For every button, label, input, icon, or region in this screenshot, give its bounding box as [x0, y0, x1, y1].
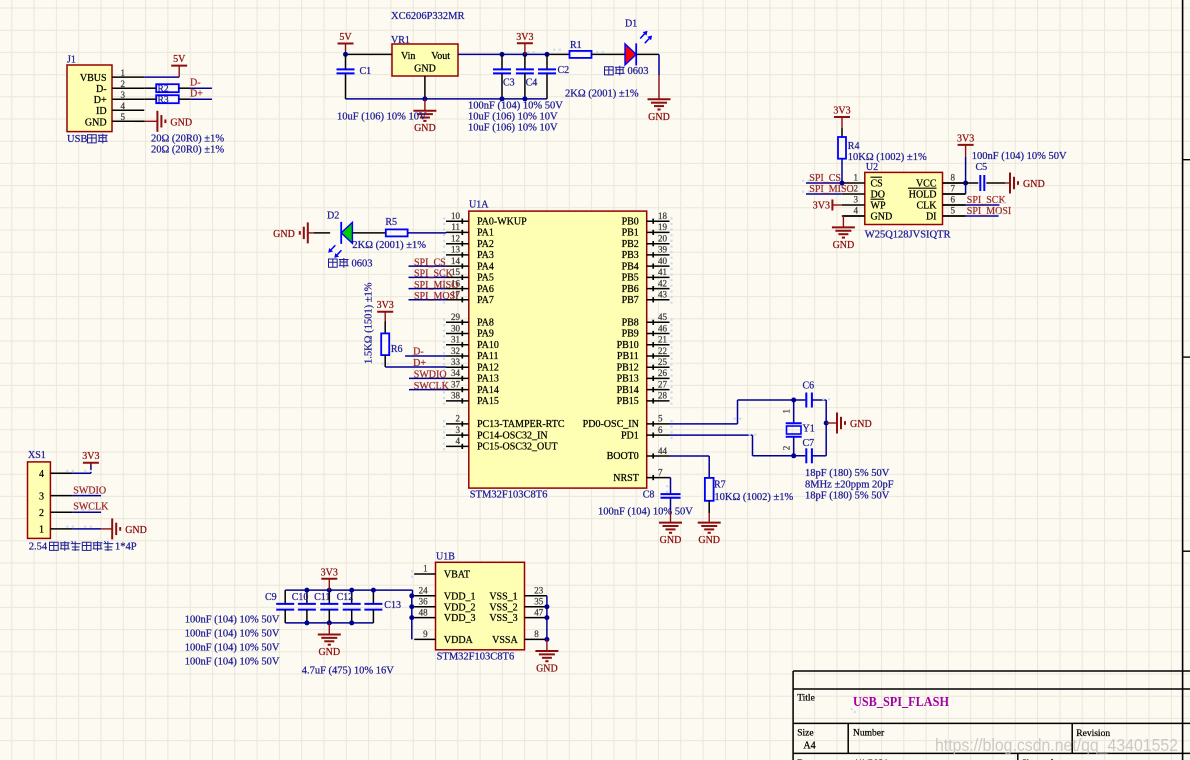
svg-text:8: 8	[534, 629, 539, 639]
svg-text:PA9: PA9	[477, 329, 494, 340]
svg-text:J1: J1	[67, 55, 76, 66]
svg-text:5V: 5V	[339, 32, 352, 43]
svg-text:VSS_2: VSS_2	[489, 602, 517, 613]
svg-text:44: 44	[658, 446, 668, 456]
svg-text:R7: R7	[714, 479, 726, 490]
svg-text:U2: U2	[866, 162, 878, 173]
svg-text:PA14: PA14	[477, 385, 499, 396]
svg-text:24: 24	[419, 586, 429, 596]
svg-text:PB13: PB13	[617, 374, 639, 385]
svg-text:30: 30	[451, 323, 461, 333]
svg-text:2: 2	[39, 508, 44, 519]
svg-text:18: 18	[658, 211, 668, 221]
svg-text:C6: C6	[803, 380, 815, 391]
svg-text:3V3: 3V3	[321, 567, 338, 578]
svg-text:SPI_SCK: SPI_SCK	[967, 195, 1007, 206]
svg-text:20: 20	[658, 234, 668, 244]
svg-text:PA5: PA5	[477, 273, 494, 284]
svg-text:WP: WP	[871, 200, 886, 211]
svg-text:STM32F103C8T6: STM32F103C8T6	[437, 651, 515, 662]
svg-text:4.7uF (475) 10% 16V: 4.7uF (475) 10% 16V	[302, 666, 395, 677]
svg-text:7: 7	[951, 184, 956, 194]
svg-text:1: 1	[782, 409, 792, 414]
svg-text:A4: A4	[803, 741, 815, 752]
svg-text:C11: C11	[314, 592, 330, 603]
svg-text:21: 21	[658, 335, 667, 345]
svg-text:D-: D-	[413, 347, 424, 358]
svg-text:8: 8	[951, 173, 956, 183]
svg-text:VDDA: VDDA	[444, 635, 474, 646]
svg-text:10uF (106) 10% 10V: 10uF (106) 10% 10V	[337, 112, 427, 123]
svg-text:100nF (104) 10% 50V: 100nF (104) 10% 50V	[468, 101, 563, 112]
svg-text:U1A: U1A	[469, 199, 489, 210]
svg-text:GND: GND	[850, 419, 872, 430]
svg-text:3V3: 3V3	[957, 133, 974, 144]
svg-text:SPI_SCK: SPI_SCK	[414, 269, 454, 280]
svg-text:R6: R6	[391, 344, 403, 355]
svg-text:11: 11	[451, 222, 460, 232]
svg-text:D1: D1	[625, 18, 637, 29]
svg-text:100nF (104) 10% 50V: 100nF (104) 10% 50V	[598, 507, 693, 518]
svg-text:C1: C1	[360, 66, 372, 77]
svg-text:1: 1	[854, 173, 859, 183]
svg-text:29: 29	[451, 312, 461, 322]
svg-text:USB: USB	[67, 134, 87, 145]
svg-text:20Ω (20R0) ±1%: 20Ω (20R0) ±1%	[151, 134, 224, 145]
svg-text:46: 46	[658, 323, 668, 333]
svg-text:VBAT: VBAT	[444, 570, 470, 581]
svg-text:PA4: PA4	[477, 261, 494, 272]
svg-text:D-: D-	[190, 78, 201, 89]
svg-text:SWCLK: SWCLK	[414, 381, 450, 392]
svg-text:1: 1	[121, 68, 126, 78]
svg-text:XS1: XS1	[28, 450, 46, 461]
svg-text:Vout: Vout	[431, 51, 450, 62]
svg-text:3V3: 3V3	[813, 201, 830, 212]
svg-text:42: 42	[658, 278, 667, 288]
svg-text:PA12: PA12	[477, 362, 499, 373]
svg-text:13: 13	[451, 245, 461, 255]
svg-text:2KΩ (2001) ±1%: 2KΩ (2001) ±1%	[565, 89, 639, 100]
svg-text:20Ω (20R0) ±1%: 20Ω (20R0) ±1%	[151, 145, 224, 156]
svg-text:0603: 0603	[352, 258, 373, 269]
svg-text:PA7: PA7	[477, 295, 494, 306]
svg-text:PB4: PB4	[622, 261, 639, 272]
svg-text:GND: GND	[318, 647, 340, 658]
svg-text:34: 34	[451, 368, 461, 378]
svg-text:PB7: PB7	[622, 295, 639, 306]
svg-text:33: 33	[451, 357, 461, 367]
svg-text:C3: C3	[503, 78, 515, 89]
svg-text:7: 7	[658, 467, 663, 477]
svg-text:PA2: PA2	[477, 239, 494, 250]
svg-text:PA6: PA6	[477, 284, 494, 295]
svg-text:Number: Number	[853, 729, 885, 739]
svg-text:CLK: CLK	[917, 200, 938, 211]
svg-text:U1B: U1B	[436, 551, 455, 562]
svg-text:C7: C7	[803, 438, 815, 449]
svg-text:D+: D+	[413, 358, 426, 369]
svg-text:VBUS: VBUS	[80, 73, 107, 84]
svg-text:GND: GND	[833, 240, 855, 251]
svg-text:14: 14	[451, 256, 461, 266]
svg-text:Size: Size	[797, 729, 813, 739]
svg-text:PA11: PA11	[477, 351, 499, 362]
svg-text:4: 4	[39, 469, 44, 480]
svg-text:25: 25	[658, 357, 668, 367]
svg-text:10: 10	[451, 211, 461, 221]
svg-text:18pF (180) 5% 50V: 18pF (180) 5% 50V	[805, 468, 890, 479]
svg-text:GND: GND	[871, 211, 893, 222]
svg-text:VSSA: VSSA	[492, 635, 518, 646]
svg-text:PA3: PA3	[477, 250, 494, 261]
svg-text:38: 38	[451, 391, 461, 401]
svg-text:5: 5	[121, 112, 126, 122]
svg-text:PB3: PB3	[622, 250, 639, 261]
svg-text:PA13: PA13	[477, 374, 499, 385]
svg-text:SPI_MOSI: SPI_MOSI	[414, 291, 458, 302]
svg-text:43: 43	[658, 290, 668, 300]
svg-text:PA1: PA1	[477, 228, 494, 239]
svg-text:2: 2	[782, 446, 792, 451]
svg-text:PB10: PB10	[617, 340, 639, 351]
svg-text:PB8: PB8	[622, 318, 639, 329]
svg-text:40: 40	[658, 256, 668, 266]
svg-text:3V3: 3V3	[377, 300, 394, 311]
svg-text:GND: GND	[536, 664, 558, 675]
svg-text:R5: R5	[385, 217, 397, 228]
svg-text:5: 5	[951, 206, 956, 216]
svg-text:3: 3	[456, 425, 461, 435]
svg-text:GND: GND	[414, 123, 436, 134]
svg-text:31: 31	[451, 335, 460, 345]
svg-text:10KΩ (1002) ±1%: 10KΩ (1002) ±1%	[714, 492, 793, 503]
svg-text:1.5KΩ (1501) ±1%: 1.5KΩ (1501) ±1%	[364, 282, 375, 364]
svg-text:PB0: PB0	[622, 216, 639, 227]
svg-text:PA0-WKUP: PA0-WKUP	[477, 216, 527, 227]
svg-text:R4: R4	[848, 141, 860, 152]
svg-text:41: 41	[658, 267, 667, 277]
svg-text:3: 3	[121, 90, 126, 100]
svg-text:PB14: PB14	[617, 385, 639, 396]
svg-text:C5: C5	[976, 162, 988, 173]
svg-text:100nF (104) 10% 50V: 100nF (104) 10% 50V	[185, 614, 280, 625]
svg-text:C2: C2	[558, 65, 570, 76]
svg-text:PC13-TAMPER-RTC: PC13-TAMPER-RTC	[477, 419, 565, 430]
svg-text:6: 6	[951, 195, 956, 205]
svg-text:6: 6	[658, 425, 663, 435]
svg-text:5: 5	[658, 414, 663, 424]
svg-text:D2: D2	[327, 211, 339, 222]
svg-text:47: 47	[534, 607, 544, 617]
svg-text:PB15: PB15	[617, 396, 639, 407]
svg-text:4: 4	[121, 101, 126, 111]
svg-text:PA10: PA10	[477, 340, 499, 351]
svg-text:2: 2	[854, 184, 859, 194]
svg-text:36: 36	[419, 596, 429, 606]
svg-text:CS: CS	[871, 178, 883, 189]
svg-text:SPI_CS: SPI_CS	[809, 173, 841, 184]
svg-text:3V3: 3V3	[833, 106, 850, 117]
svg-text:32: 32	[451, 346, 460, 356]
svg-text:SPI_MISO: SPI_MISO	[809, 184, 853, 195]
svg-text:ID: ID	[96, 106, 107, 117]
svg-text:C9: C9	[265, 592, 277, 603]
svg-text:3V3: 3V3	[516, 32, 533, 43]
svg-text:39: 39	[658, 245, 668, 255]
svg-text:PB6: PB6	[622, 284, 639, 295]
svg-text:HOLD: HOLD	[909, 189, 937, 200]
svg-text:PB2: PB2	[622, 239, 639, 250]
svg-text:SWCLK: SWCLK	[73, 501, 109, 512]
svg-text:SWDIO: SWDIO	[414, 370, 447, 381]
svg-text:19: 19	[658, 222, 668, 232]
svg-text:C10: C10	[292, 592, 309, 603]
svg-text:100nF (104) 10% 50V: 100nF (104) 10% 50V	[185, 656, 280, 667]
svg-text:GND: GND	[648, 112, 670, 123]
svg-text:2KΩ (2001) ±1%: 2KΩ (2001) ±1%	[352, 240, 426, 251]
svg-text:22: 22	[658, 346, 667, 356]
svg-text:37: 37	[451, 379, 461, 389]
svg-text:C4: C4	[526, 78, 538, 89]
svg-text:8MHz ±20ppm 20pF: 8MHz ±20ppm 20pF	[805, 480, 894, 491]
svg-text:28: 28	[658, 391, 668, 401]
svg-text:VDD_1: VDD_1	[444, 591, 476, 602]
svg-text:DI: DI	[926, 211, 937, 222]
svg-text:GND: GND	[273, 229, 295, 240]
svg-text:3: 3	[854, 195, 859, 205]
svg-text:2.54: 2.54	[29, 542, 48, 553]
svg-text:18pF (180) 5% 50V: 18pF (180) 5% 50V	[805, 491, 890, 502]
svg-text:27: 27	[658, 379, 668, 389]
svg-text:D+: D+	[190, 89, 203, 100]
svg-text:23: 23	[534, 586, 544, 596]
svg-text:1: 1	[423, 564, 428, 574]
svg-text:PB9: PB9	[622, 329, 639, 340]
svg-text:35: 35	[534, 596, 544, 606]
svg-text:XC6206P332MR: XC6206P332MR	[391, 11, 465, 22]
svg-text:1: 1	[39, 525, 44, 536]
svg-text:GND: GND	[698, 535, 720, 546]
svg-text:100nF (104) 10% 50V: 100nF (104) 10% 50V	[185, 642, 280, 653]
svg-text:STM32F103C8T6: STM32F103C8T6	[470, 490, 548, 501]
svg-text:3: 3	[39, 491, 44, 502]
svg-text:SPI_MOSI: SPI_MOSI	[967, 206, 1011, 217]
svg-text:C8: C8	[643, 490, 655, 501]
svg-text:45: 45	[658, 312, 668, 322]
svg-text:100nF (104) 10% 50V: 100nF (104) 10% 50V	[972, 151, 1067, 162]
svg-text:VDD_2: VDD_2	[444, 602, 476, 613]
svg-text:Y1: Y1	[803, 423, 815, 434]
svg-text:100nF (104) 10% 50V: 100nF (104) 10% 50V	[185, 628, 280, 639]
svg-text:PD0-OSC_IN: PD0-OSC_IN	[583, 419, 639, 430]
svg-text:https://blog.csdn.net/qq_43401: https://blog.csdn.net/qq_43401552	[935, 735, 1178, 756]
svg-text:GND: GND	[170, 117, 192, 128]
svg-text:VDD_3: VDD_3	[444, 613, 476, 624]
svg-text:26: 26	[658, 368, 668, 378]
svg-text:PD1: PD1	[621, 430, 639, 441]
svg-text:GND: GND	[660, 535, 682, 546]
svg-text:PA8: PA8	[477, 318, 494, 329]
svg-text:GND: GND	[125, 525, 147, 536]
svg-text:PC15-OSC32_OUT: PC15-OSC32_OUT	[477, 442, 558, 453]
svg-text:2: 2	[456, 414, 461, 424]
svg-text:0603: 0603	[628, 66, 649, 77]
svg-text:VSS_1: VSS_1	[489, 591, 517, 602]
svg-text:10KΩ (1002) ±1%: 10KΩ (1002) ±1%	[848, 152, 927, 163]
svg-text:D-: D-	[96, 84, 107, 95]
svg-text:5V: 5V	[173, 54, 186, 65]
svg-text:Title: Title	[797, 693, 815, 703]
svg-text:3V3: 3V3	[82, 451, 99, 462]
svg-text:PB5: PB5	[622, 273, 639, 284]
svg-text:PB1: PB1	[622, 228, 639, 239]
svg-text:10uF (106) 10% 10V: 10uF (106) 10% 10V	[468, 123, 558, 134]
svg-text:GND: GND	[1023, 179, 1045, 190]
svg-text:PC14-OSC32_IN: PC14-OSC32_IN	[477, 430, 548, 441]
svg-text:12: 12	[451, 234, 460, 244]
svg-text:GND: GND	[414, 64, 436, 75]
svg-text:PB11: PB11	[617, 351, 639, 362]
svg-text:1*4P: 1*4P	[115, 542, 137, 553]
svg-text:4: 4	[456, 436, 461, 446]
svg-text:C13: C13	[384, 600, 401, 611]
svg-text:PB12: PB12	[617, 362, 639, 373]
svg-text:C12: C12	[337, 592, 354, 603]
svg-text:USB_SPI_FLASH: USB_SPI_FLASH	[853, 694, 949, 709]
svg-text:W25Q128JVSIQTR: W25Q128JVSIQTR	[865, 229, 951, 240]
svg-text:48: 48	[419, 607, 429, 617]
svg-text:4: 4	[854, 206, 859, 216]
svg-text:SPI_MISO: SPI_MISO	[414, 280, 458, 291]
svg-text:D+: D+	[94, 95, 107, 106]
svg-text:GND: GND	[85, 117, 107, 128]
svg-text:R1: R1	[570, 40, 582, 51]
svg-text:2: 2	[121, 79, 126, 89]
svg-text:PA15: PA15	[477, 396, 499, 407]
svg-text:BOOT0: BOOT0	[607, 451, 639, 462]
svg-text:SWDIO: SWDIO	[73, 485, 106, 496]
svg-text:VSS_3: VSS_3	[489, 613, 517, 624]
svg-text:Vin: Vin	[401, 51, 415, 62]
svg-text:NRST: NRST	[613, 473, 639, 484]
svg-text:9: 9	[423, 629, 428, 639]
svg-text:SPI_CS: SPI_CS	[414, 257, 446, 268]
svg-text:10uF (106) 10% 10V: 10uF (106) 10% 10V	[468, 112, 558, 123]
